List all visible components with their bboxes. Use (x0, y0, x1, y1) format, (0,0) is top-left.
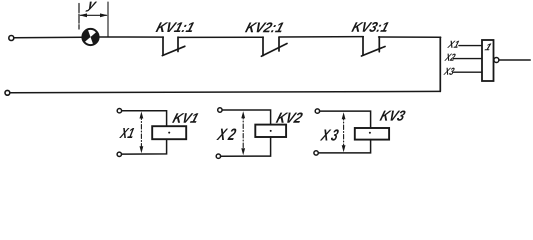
label X3 (320, 129, 339, 140)
label KV2:1 (245, 22, 284, 32)
dimension arrow X3 (342, 112, 346, 152)
terminal unit3 top (315, 109, 319, 113)
contact KV2:1 (261, 37, 287, 56)
label KV1 (172, 113, 198, 123)
wire gate input x1 (459, 45, 482, 47)
wire unit1 top (122, 111, 167, 127)
terminal unit1 top (117, 109, 121, 113)
wire gate output (499, 59, 530, 61)
wire unit1 bottom (122, 139, 167, 154)
relay coil KV3 (355, 128, 389, 140)
terminal unit1 bottom (117, 152, 121, 156)
label X2 gate input (444, 54, 455, 61)
wire right vertical of loop (439, 37, 441, 91)
terminal left bottom (5, 90, 10, 95)
terminal unit2 bottom (216, 154, 220, 158)
label KV1:1 (155, 22, 194, 32)
label X2 (216, 128, 236, 140)
dimension y arrow line (79, 13, 107, 17)
terminal unit3 bottom (314, 151, 318, 155)
terminal left top (9, 36, 14, 41)
relay coil KV2 (255, 125, 286, 137)
contact KV1:1 (162, 37, 185, 56)
wire top rail segment 1 (14, 36, 83, 39)
label X3 gate input (443, 68, 454, 75)
wire top rail segment 2 (98, 36, 163, 38)
wire bottom rail (11, 91, 441, 92)
label y (85, 2, 97, 12)
wire gate input x2 (454, 58, 483, 60)
dimension arrow X2 (241, 111, 245, 155)
label KV3:1 (351, 22, 388, 32)
wire top rail segment 4 (279, 36, 363, 38)
contact KV3:1 (362, 37, 386, 56)
label X1 gate input (447, 41, 459, 48)
label KV3 (379, 110, 405, 120)
relay coil KV1 (152, 126, 186, 139)
dimension y extension tick left (78, 4, 80, 30)
wire top rail segment 5 (379, 36, 441, 38)
wire unit2 bottom (221, 137, 271, 156)
wire unit3 top (320, 111, 371, 128)
wire gate input x3 (453, 71, 482, 73)
label KV2 (276, 113, 303, 123)
label X1 (119, 128, 134, 138)
wire unit3 bottom (318, 140, 370, 153)
terminal unit2 top (218, 108, 222, 112)
logic gate U1 (OR with inverted output) (482, 40, 499, 81)
wire top rail segment 3 (178, 36, 263, 38)
dimension arrow X1 (140, 112, 144, 154)
lamp HL (82, 29, 98, 45)
wire unit2 top (222, 110, 271, 125)
dimension y extension tick right (107, 2, 109, 37)
